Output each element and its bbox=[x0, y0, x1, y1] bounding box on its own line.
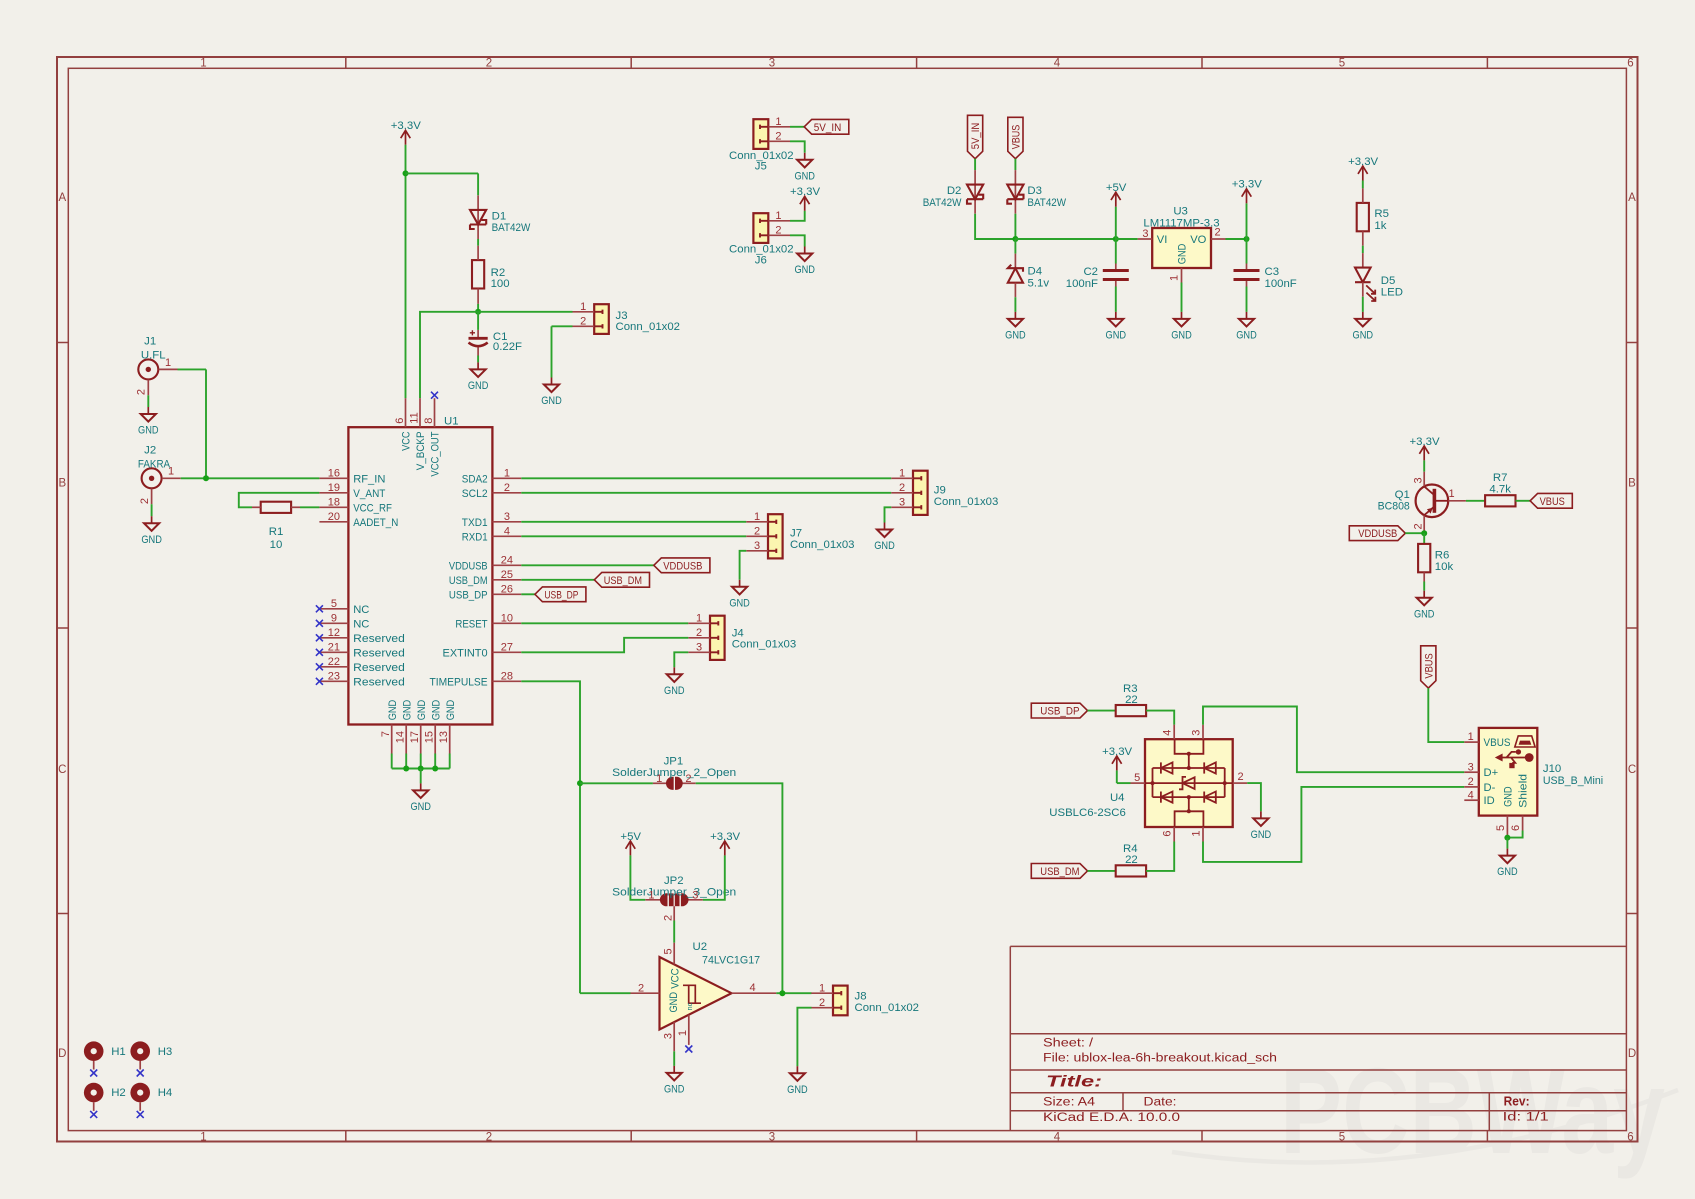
svg-text:J10: J10 bbox=[1543, 763, 1561, 775]
svg-text:Q1: Q1 bbox=[1395, 489, 1410, 501]
power +3.3V bbox=[790, 186, 820, 211]
svg-text:BAT42W: BAT42W bbox=[923, 197, 962, 209]
wire bbox=[1203, 707, 1464, 773]
svg-text:2: 2 bbox=[775, 131, 781, 143]
svg-text:9: 9 bbox=[331, 613, 337, 625]
pin 5 U2 bbox=[663, 948, 675, 954]
no-connect bbox=[316, 634, 323, 641]
svg-text:GND: GND bbox=[401, 700, 413, 721]
svg-text:1: 1 bbox=[677, 1030, 689, 1036]
net label 5V_IN bbox=[968, 115, 983, 158]
pin name GND U1 bbox=[430, 700, 442, 721]
svg-text:3: 3 bbox=[692, 890, 698, 902]
wire bbox=[1116, 238, 1138, 240]
svg-text:U2: U2 bbox=[693, 941, 708, 953]
pin 2 Q1 bbox=[1413, 523, 1425, 529]
svg-text:1: 1 bbox=[580, 301, 586, 313]
svg-text:GND: GND bbox=[1251, 829, 1272, 841]
wire bbox=[477, 312, 479, 330]
junction bbox=[475, 309, 481, 315]
power +5V bbox=[1106, 182, 1127, 207]
pin 2 J2 bbox=[139, 498, 151, 504]
svg-text:LED: LED bbox=[1381, 286, 1403, 298]
junction bbox=[577, 780, 583, 786]
svg-text:2: 2 bbox=[486, 1131, 492, 1143]
wire bbox=[1014, 297, 1016, 312]
svg-text:J5: J5 bbox=[755, 161, 767, 173]
svg-text:18: 18 bbox=[328, 497, 340, 509]
svg-text:4: 4 bbox=[1162, 730, 1174, 736]
svg-text:GND: GND bbox=[664, 685, 685, 697]
ground bbox=[787, 1066, 808, 1096]
svg-text:VCC_RF: VCC_RF bbox=[353, 502, 392, 514]
svg-text:2: 2 bbox=[1413, 523, 1425, 529]
wire bbox=[790, 126, 804, 128]
wire bbox=[477, 173, 479, 195]
svg-text:Conn_01x03: Conn_01x03 bbox=[934, 496, 999, 508]
junction bbox=[403, 766, 409, 772]
ground bbox=[468, 362, 489, 392]
ground bbox=[1251, 811, 1272, 841]
svg-text:GND: GND bbox=[410, 801, 431, 813]
no-connect bbox=[316, 678, 323, 685]
net label USB_DM bbox=[594, 572, 649, 587]
svg-text:VBUS: VBUS bbox=[1540, 496, 1565, 508]
svg-text:U3: U3 bbox=[1173, 205, 1188, 217]
pin 5 J10 bbox=[1495, 825, 1507, 831]
wire bbox=[790, 235, 805, 246]
svg-text:20: 20 bbox=[328, 511, 340, 523]
svg-text:3: 3 bbox=[769, 1131, 775, 1143]
svg-text:22: 22 bbox=[328, 656, 340, 668]
svg-text:19: 19 bbox=[328, 482, 340, 494]
svg-text:Date:: Date: bbox=[1144, 1096, 1177, 1108]
svg-text:2: 2 bbox=[685, 773, 691, 785]
diode D1 bbox=[470, 195, 486, 239]
svg-text:1: 1 bbox=[696, 613, 702, 625]
wire bbox=[1507, 831, 1522, 838]
svg-text:Conn_01x02: Conn_01x02 bbox=[616, 321, 681, 333]
svg-text:100nF: 100nF bbox=[1265, 278, 1297, 290]
wire bbox=[975, 214, 1015, 239]
wire bbox=[521, 492, 891, 494]
svg-text:+3.3V: +3.3V bbox=[710, 831, 740, 843]
wire bbox=[449, 754, 451, 769]
svg-text:5: 5 bbox=[1495, 825, 1507, 831]
svg-text:6: 6 bbox=[1627, 1131, 1633, 1143]
svg-text:3: 3 bbox=[754, 540, 760, 552]
ground bbox=[794, 153, 815, 183]
svg-text:J8: J8 bbox=[855, 991, 867, 1003]
wire bbox=[1428, 688, 1464, 742]
svg-text:GND: GND bbox=[1503, 786, 1515, 807]
pin name V_BCKP U1 bbox=[415, 432, 427, 471]
wire bbox=[392, 768, 450, 770]
svg-text:26: 26 bbox=[501, 584, 513, 596]
svg-text:D+: D+ bbox=[1484, 767, 1499, 779]
svg-text:5: 5 bbox=[331, 598, 337, 610]
power +3.3V bbox=[1102, 746, 1132, 771]
wire bbox=[1362, 181, 1364, 189]
svg-text:USB_B_Mini: USB_B_Mini bbox=[1543, 775, 1603, 787]
net label VBUS bbox=[1530, 493, 1572, 508]
wire bbox=[521, 564, 654, 566]
ground bbox=[794, 247, 815, 277]
svg-text:4.7k: 4.7k bbox=[1489, 484, 1511, 496]
svg-text:1: 1 bbox=[1168, 275, 1180, 281]
junction bbox=[1421, 530, 1427, 536]
wire bbox=[406, 172, 479, 174]
svg-text:V_BCKP: V_BCKP bbox=[415, 432, 427, 471]
wire bbox=[740, 551, 747, 580]
wire bbox=[1423, 460, 1425, 471]
svg-text:5.1v: 5.1v bbox=[1028, 278, 1050, 290]
svg-text:2: 2 bbox=[696, 627, 702, 639]
pin 1 U4 bbox=[1191, 831, 1203, 837]
svg-text:R1: R1 bbox=[269, 526, 284, 538]
svg-text:Title:: Title: bbox=[1046, 1074, 1102, 1091]
svg-text:J2: J2 bbox=[144, 444, 156, 456]
no-connect bbox=[137, 1070, 144, 1077]
svg-text:Size: A4: Size: A4 bbox=[1043, 1096, 1096, 1108]
pin 14 GND U1 bbox=[395, 731, 407, 743]
wire bbox=[1015, 238, 1115, 240]
pin 7 GND U1 bbox=[380, 731, 392, 737]
wire bbox=[1146, 842, 1174, 871]
svg-text:nc: nc bbox=[685, 1002, 694, 1010]
svg-text:D: D bbox=[58, 1048, 66, 1060]
wire bbox=[1226, 238, 1247, 240]
ground bbox=[138, 407, 159, 437]
svg-text:A: A bbox=[1628, 192, 1636, 204]
wire bbox=[797, 1008, 811, 1066]
svg-text:GND: GND bbox=[664, 1084, 685, 1096]
power +5V bbox=[620, 831, 641, 856]
wire bbox=[1014, 214, 1016, 239]
svg-text:USB_DM: USB_DM bbox=[604, 575, 642, 587]
ground bbox=[1353, 312, 1374, 342]
svg-text:EXTINT0: EXTINT0 bbox=[443, 647, 488, 659]
ground bbox=[1236, 312, 1257, 342]
wire bbox=[405, 754, 407, 769]
junction bbox=[779, 990, 785, 996]
wire bbox=[1181, 283, 1183, 312]
connector J2 bbox=[142, 468, 181, 504]
wire bbox=[300, 506, 319, 508]
diode D2 bbox=[967, 170, 983, 214]
wire bbox=[790, 211, 805, 221]
svg-text:GND: GND bbox=[468, 380, 489, 392]
svg-text:1: 1 bbox=[1191, 831, 1203, 837]
svg-text:23: 23 bbox=[328, 671, 340, 683]
svg-text:Conn_01x02: Conn_01x02 bbox=[855, 1002, 920, 1014]
svg-text:GND: GND bbox=[794, 264, 815, 276]
svg-text:2: 2 bbox=[486, 58, 492, 70]
svg-text:VCC: VCC bbox=[401, 432, 413, 451]
resistor R5 bbox=[1357, 188, 1369, 245]
junction bbox=[1113, 236, 1119, 242]
power +3.3V bbox=[391, 120, 421, 145]
svg-text:J1: J1 bbox=[144, 335, 156, 347]
svg-text:2: 2 bbox=[819, 997, 825, 1009]
svg-text:2: 2 bbox=[139, 498, 151, 504]
pin 1 U3 bbox=[1168, 275, 1180, 281]
svg-text:4: 4 bbox=[1468, 789, 1474, 801]
svg-text:VCC: VCC bbox=[669, 968, 681, 989]
svg-text:B: B bbox=[58, 478, 66, 490]
svg-text:1: 1 bbox=[754, 511, 760, 523]
ground bbox=[1497, 849, 1518, 879]
power +3.3V bbox=[1409, 436, 1439, 461]
svg-text:6: 6 bbox=[1162, 831, 1174, 837]
svg-text:NC: NC bbox=[353, 604, 369, 616]
wire bbox=[552, 325, 573, 327]
wire bbox=[521, 638, 688, 653]
wire bbox=[974, 159, 976, 170]
svg-text:+5V: +5V bbox=[620, 831, 641, 843]
wire bbox=[630, 855, 645, 899]
wire bbox=[1014, 159, 1016, 170]
wire bbox=[1115, 239, 1117, 264]
svg-text:+3.3V: +3.3V bbox=[790, 186, 820, 198]
ground bbox=[1171, 312, 1192, 342]
svg-text:H4: H4 bbox=[158, 1087, 173, 1099]
svg-text:VDDUSB: VDDUSB bbox=[1358, 528, 1397, 540]
svg-text:USB_DM: USB_DM bbox=[449, 575, 488, 587]
svg-text:2: 2 bbox=[754, 526, 760, 538]
svg-text:R5: R5 bbox=[1374, 208, 1389, 220]
wire bbox=[673, 1051, 675, 1066]
wire bbox=[521, 593, 535, 595]
wire bbox=[1247, 783, 1261, 811]
svg-text:13: 13 bbox=[438, 731, 450, 743]
wire bbox=[580, 992, 631, 994]
svg-text:File: ublox-lea-6h-breakout.ki: File: ublox-lea-6h-breakout.kicad_sch bbox=[1043, 1053, 1277, 1065]
junction bbox=[1012, 236, 1018, 242]
svg-text:D3: D3 bbox=[1027, 185, 1042, 197]
svg-text:2: 2 bbox=[663, 915, 675, 921]
no-connect bbox=[137, 1111, 144, 1118]
svg-text:JP1: JP1 bbox=[664, 755, 684, 767]
svg-text:1: 1 bbox=[168, 466, 174, 478]
svg-text:1: 1 bbox=[775, 210, 781, 222]
svg-text:R7: R7 bbox=[1493, 472, 1508, 484]
svg-text:GND: GND bbox=[1414, 608, 1435, 620]
no-connect bbox=[316, 649, 323, 656]
svg-text:10: 10 bbox=[501, 613, 513, 625]
svg-text:1: 1 bbox=[899, 468, 905, 480]
wire bbox=[477, 304, 479, 312]
junction bbox=[403, 170, 409, 176]
svg-text:GND: GND bbox=[416, 700, 428, 721]
svg-text:Reserved: Reserved bbox=[353, 633, 405, 645]
svg-text:100: 100 bbox=[491, 278, 510, 290]
resistor R1 bbox=[252, 502, 300, 513]
pin 17 GND U1 bbox=[409, 731, 421, 743]
svg-text:TIMEPULSE: TIMEPULSE bbox=[430, 676, 488, 688]
svg-text:5V_IN: 5V_IN bbox=[970, 123, 982, 149]
svg-text:2: 2 bbox=[899, 482, 905, 494]
svg-text:5: 5 bbox=[663, 948, 675, 954]
power +3.3V bbox=[710, 831, 740, 856]
svg-text:KiCad E.D.A. 10.0.0: KiCad E.D.A. 10.0.0 bbox=[1043, 1112, 1180, 1124]
svg-text:1: 1 bbox=[165, 357, 171, 369]
svg-text:LM1117MP-3.3: LM1117MP-3.3 bbox=[1143, 217, 1219, 229]
svg-text:1k: 1k bbox=[1374, 220, 1386, 232]
svg-text:3: 3 bbox=[1191, 730, 1203, 736]
pin 15 GND U1 bbox=[424, 731, 436, 743]
mounting hole H1 bbox=[84, 1041, 126, 1069]
net label VDDUSB bbox=[654, 558, 710, 573]
svg-text:USB_DP: USB_DP bbox=[544, 589, 578, 601]
IC U4 bbox=[1131, 725, 1248, 842]
connector J9 bbox=[891, 471, 927, 515]
mounting hole H3 bbox=[130, 1041, 172, 1069]
svg-text:27: 27 bbox=[501, 642, 513, 654]
ground bbox=[729, 580, 750, 610]
svg-text:100nF: 100nF bbox=[1066, 278, 1098, 290]
diode D4 bbox=[1008, 254, 1023, 298]
wire bbox=[1115, 207, 1117, 239]
svg-text:GND: GND bbox=[141, 534, 162, 546]
svg-text:16: 16 bbox=[328, 468, 340, 480]
svg-text:17: 17 bbox=[409, 731, 421, 743]
svg-text:5V_IN: 5V_IN bbox=[814, 122, 842, 134]
svg-text:U4: U4 bbox=[1110, 792, 1125, 804]
pin 13 GND U1 bbox=[438, 731, 450, 743]
svg-text:USB_DM: USB_DM bbox=[1040, 866, 1079, 878]
wire bbox=[776, 992, 811, 994]
svg-text:22: 22 bbox=[1125, 854, 1138, 866]
wire bbox=[420, 769, 422, 784]
svg-text:A: A bbox=[58, 192, 66, 204]
net label VBUS bbox=[1421, 646, 1436, 688]
svg-text:74LVC1G17: 74LVC1G17 bbox=[702, 954, 760, 966]
svg-text:SDA2: SDA2 bbox=[462, 473, 488, 485]
connector J10 bbox=[1464, 728, 1537, 838]
pin 2 JP2 bbox=[663, 915, 675, 921]
svg-text:SCL2: SCL2 bbox=[462, 488, 488, 500]
pin 6 U4 bbox=[1162, 831, 1174, 837]
pin 8 U1 bbox=[423, 418, 435, 424]
wire bbox=[1203, 787, 1464, 862]
svg-text:D-: D- bbox=[1484, 782, 1496, 794]
wire bbox=[696, 783, 783, 993]
svg-text:VCC_OUT: VCC_OUT bbox=[430, 431, 442, 476]
svg-text:ID: ID bbox=[1484, 795, 1495, 807]
svg-text:Rev:: Rev: bbox=[1504, 1095, 1530, 1109]
svg-text:Id: 1/1: Id: 1/1 bbox=[1503, 1111, 1549, 1123]
pin name GND U1 bbox=[416, 700, 428, 721]
junction bbox=[1504, 835, 1510, 841]
svg-text:BAT42W: BAT42W bbox=[492, 222, 531, 234]
jumper JP2 bbox=[645, 893, 703, 920]
svg-text:1: 1 bbox=[648, 890, 654, 902]
wire bbox=[239, 493, 320, 508]
wire bbox=[151, 504, 153, 516]
wire bbox=[673, 921, 675, 943]
svg-text:GND: GND bbox=[787, 1084, 808, 1096]
svg-text:VDDUSB: VDDUSB bbox=[449, 560, 488, 572]
svg-text:3: 3 bbox=[769, 58, 775, 70]
svg-text:6: 6 bbox=[1627, 58, 1633, 70]
svg-text:+3.3V: +3.3V bbox=[391, 120, 421, 132]
svg-text:22: 22 bbox=[1125, 694, 1138, 706]
svg-text:2: 2 bbox=[504, 482, 510, 494]
wire bbox=[181, 477, 320, 479]
wire bbox=[521, 681, 580, 993]
net label VDDUSB bbox=[1349, 526, 1405, 541]
svg-text:FAKRA: FAKRA bbox=[138, 458, 171, 470]
power +3.3V bbox=[1232, 179, 1262, 204]
svg-text:Reserved: Reserved bbox=[353, 647, 405, 659]
svg-text:8: 8 bbox=[423, 418, 435, 424]
ground bbox=[664, 667, 685, 697]
svg-text:Reserved: Reserved bbox=[353, 662, 405, 674]
svg-text:4: 4 bbox=[1054, 58, 1061, 70]
resistor R3 bbox=[1116, 705, 1146, 716]
svg-text:+3.3V: +3.3V bbox=[1102, 746, 1132, 758]
svg-text:3: 3 bbox=[504, 511, 510, 523]
IC U3 bbox=[1138, 228, 1226, 283]
wire bbox=[1246, 203, 1248, 239]
svg-text:C: C bbox=[1628, 764, 1636, 776]
pin 1 U2 bbox=[677, 1030, 689, 1036]
svg-text:USB_DP: USB_DP bbox=[449, 589, 488, 601]
svg-text:6: 6 bbox=[1510, 825, 1522, 831]
net label USB_DP bbox=[1031, 703, 1087, 718]
svg-text:USB_DP: USB_DP bbox=[1040, 706, 1079, 718]
svg-text:GND: GND bbox=[1177, 244, 1189, 265]
wire bbox=[405, 145, 407, 398]
wire bbox=[1423, 582, 1425, 591]
svg-text:GND: GND bbox=[387, 700, 399, 721]
svg-text:H2: H2 bbox=[111, 1087, 126, 1099]
svg-text:VO: VO bbox=[1190, 234, 1206, 246]
svg-text:3: 3 bbox=[1468, 761, 1474, 773]
svg-text:6: 6 bbox=[394, 418, 406, 424]
resistor R6 bbox=[1418, 544, 1430, 582]
pin 4 U4 bbox=[1162, 730, 1174, 736]
pin name VCC_OUT U1 bbox=[430, 431, 442, 476]
svg-text:25: 25 bbox=[501, 569, 513, 581]
connector J5 bbox=[753, 119, 790, 149]
transistor Q1 bbox=[1416, 472, 1466, 534]
svg-text:5: 5 bbox=[1134, 772, 1140, 784]
svg-text:AADET_N: AADET_N bbox=[353, 517, 398, 529]
svg-text:+3.3V: +3.3V bbox=[1348, 156, 1378, 168]
svg-text:2: 2 bbox=[1468, 776, 1474, 788]
wire bbox=[703, 855, 725, 899]
resistor R4 bbox=[1116, 865, 1146, 876]
svg-text:24: 24 bbox=[501, 555, 513, 567]
svg-text:1: 1 bbox=[504, 468, 510, 480]
power +3.3V bbox=[1348, 156, 1378, 181]
svg-text:D: D bbox=[1628, 1048, 1636, 1060]
no-connect bbox=[316, 605, 323, 612]
svg-text:RESET: RESET bbox=[455, 618, 487, 630]
wire bbox=[521, 477, 891, 479]
svg-text:NC: NC bbox=[353, 618, 369, 630]
wire bbox=[1506, 838, 1508, 849]
svg-text:4: 4 bbox=[1054, 1131, 1061, 1143]
svg-text:2: 2 bbox=[775, 225, 781, 237]
no-connect bbox=[685, 1046, 692, 1053]
svg-text:RXD1: RXD1 bbox=[462, 531, 488, 543]
svg-text:SolderJumper_2_Open: SolderJumper_2_Open bbox=[612, 767, 736, 779]
svg-text:USBLC6-2SC6: USBLC6-2SC6 bbox=[1049, 807, 1126, 819]
svg-text:5: 5 bbox=[1339, 58, 1345, 70]
